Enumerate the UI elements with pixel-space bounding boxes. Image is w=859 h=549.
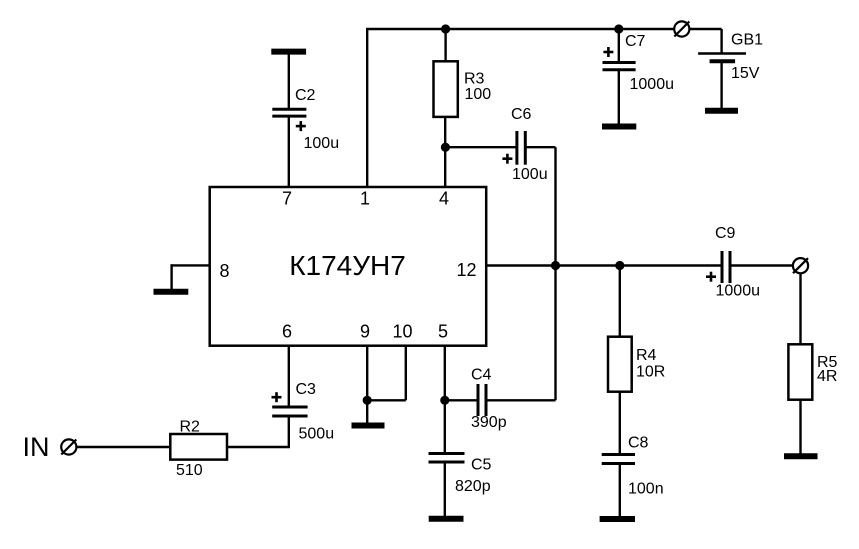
op-amp IC U1 К174УН7 body [210, 187, 487, 346]
ground below pins 9 10 [352, 423, 385, 429]
svg-text:C4: C4 [471, 366, 492, 383]
wire C7 bottom lead [618, 70, 620, 126]
wire C4 left lead [445, 399, 477, 401]
wire IN terminal to R2 [77, 446, 170, 448]
wire pin 1 vertical [366, 29, 368, 187]
C9 plus polarity mark [706, 272, 716, 282]
svg-text:R2: R2 [180, 419, 201, 436]
ground below C8 [600, 516, 635, 522]
wire pin 8 to ground [172, 264, 210, 291]
ground at pin 8 [154, 289, 189, 295]
svg-text:12: 12 [457, 260, 477, 280]
svg-text:C5: C5 [471, 456, 492, 473]
C3 plus polarity mark [272, 392, 282, 402]
wire C6 left lead [445, 146, 516, 148]
svg-text:8: 8 [220, 261, 230, 281]
wire C2 to ground [288, 53, 290, 110]
svg-text:10R: 10R [636, 364, 665, 381]
svg-text:500u: 500u [299, 425, 335, 442]
capacitor C2 plates [272, 109, 306, 116]
wire pin 5 stub [444, 346, 446, 401]
svg-text:C7: C7 [625, 33, 646, 50]
wire battery bottom lead [720, 61, 722, 110]
svg-text:100u: 100u [304, 135, 340, 152]
wire C7 top lead [618, 29, 620, 62]
capacitor C6 plates [517, 131, 525, 165]
wire pin 7 stub [288, 116, 290, 187]
svg-text:R4: R4 [636, 347, 657, 364]
wire C5 top lead [444, 400, 446, 453]
C7 plus polarity mark [603, 47, 613, 57]
resistor R5 body [788, 344, 812, 399]
wire R5 bottom lead [799, 400, 801, 456]
svg-text:100: 100 [465, 86, 492, 103]
wire pin 10 stub [405, 346, 407, 401]
wire pin 9 to ground [366, 400, 368, 424]
svg-text:GB1: GB1 [731, 31, 763, 48]
wire C6 down to output rail and C4 [554, 147, 556, 400]
svg-text:C8: C8 [628, 434, 649, 451]
svg-text:15V: 15V [731, 65, 760, 82]
wire C8 bottom lead [619, 464, 621, 519]
resistor R4 body [608, 337, 632, 392]
wire output terminal to R5 [799, 273, 801, 345]
node junction pin 9 ground [363, 396, 372, 405]
svg-text:К174УН7: К174УН7 [289, 250, 406, 281]
ground below C7 [602, 124, 636, 130]
ground below C5 [429, 516, 464, 522]
wire C9 right lead [732, 264, 794, 266]
svg-text:4: 4 [439, 189, 449, 209]
wire battery top lead [720, 29, 722, 54]
wire top supply rail [366, 28, 722, 30]
ground below R5 [784, 453, 818, 459]
node junction R3 bottom / C6 [441, 143, 450, 152]
capacitor C5 plates [429, 454, 465, 463]
capacitor C3 plates [272, 407, 307, 416]
terminal +supply (circle with slash) [674, 21, 689, 36]
wire C5 bottom lead [444, 462, 446, 518]
resistor R2 body [170, 434, 227, 460]
wire C4 right lead [487, 399, 556, 401]
wire C6 right lead [526, 146, 556, 148]
node junction pin 5 / C4 / C5 [440, 396, 449, 405]
wire pin 9 stub [366, 346, 368, 401]
svg-text:IN: IN [23, 432, 50, 462]
node junction R3 top [441, 24, 450, 33]
svg-text:820p: 820p [455, 478, 491, 495]
svg-text:100u: 100u [512, 166, 548, 183]
resistor R3 body [434, 61, 458, 117]
wire pin 10 to pin 9 [367, 399, 406, 401]
svg-text:100n: 100n [628, 480, 664, 497]
svg-text:390p: 390p [471, 414, 507, 431]
node junction C6 branch on output rail [551, 261, 560, 270]
capacitor C9 plates [722, 251, 730, 283]
svg-text:C2: C2 [295, 87, 316, 104]
svg-text:5: 5 [438, 322, 448, 342]
wire pin 12 output rail [486, 264, 720, 266]
svg-text:4R: 4R [817, 368, 837, 385]
capacitor C7 plates [603, 63, 636, 70]
node junction R4 top on output rail [615, 261, 624, 270]
svg-text:1000u: 1000u [716, 283, 761, 300]
battery GB1 plates [698, 54, 746, 62]
terminal output (circle with slash) [793, 258, 808, 273]
C6 plus polarity mark [502, 154, 512, 164]
svg-text:9: 9 [360, 322, 370, 342]
svg-text:R3: R3 [464, 71, 485, 88]
C2 plus polarity mark [296, 121, 306, 131]
wire R4 to C8 [619, 392, 621, 455]
svg-text:C9: C9 [715, 225, 736, 242]
wire R3 bottom lead to pin 4 [444, 117, 446, 187]
ground below GB1 [705, 108, 738, 114]
capacitor C8 plates [602, 455, 635, 464]
svg-text:C3: C3 [296, 381, 317, 398]
svg-text:10: 10 [392, 322, 412, 342]
terminal IN (circle with slash) [61, 439, 76, 454]
wire pin 6 stub [288, 346, 290, 406]
node junction C7 top [614, 24, 623, 33]
capacitor C4 plates [478, 384, 486, 416]
wire R3 top lead [444, 29, 446, 62]
svg-text:510: 510 [176, 462, 203, 479]
wire C3 to R2 [227, 416, 290, 447]
svg-text:7: 7 [282, 189, 292, 209]
ground above C2 [271, 49, 306, 55]
wire R4 top lead [619, 266, 621, 338]
svg-text:C6: C6 [511, 106, 532, 123]
svg-text:1: 1 [360, 189, 370, 209]
svg-text:1000u: 1000u [630, 76, 675, 93]
svg-text:6: 6 [282, 322, 292, 342]
